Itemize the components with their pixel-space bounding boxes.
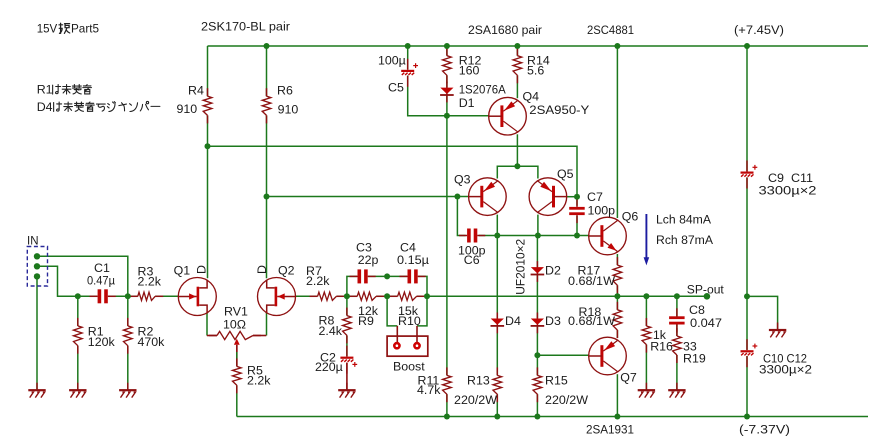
wire Q7 base net: [537, 354, 589, 356]
node bottom rail R15: [534, 414, 540, 420]
wire IN pin2 jog: [37, 266, 78, 296]
wire Q2 source: [266, 313, 268, 336]
wire R19 to ground: [676, 355, 678, 389]
svg-text:2SA950-Y: 2SA950-Y: [529, 103, 589, 117]
label R12 value: [459, 63, 480, 77]
svg-text:R16: R16: [650, 340, 673, 354]
resistor R18: [613, 302, 622, 338]
label -7.37V: [739, 423, 790, 437]
ground R19: [668, 383, 685, 398]
transistor Q6: [589, 217, 627, 255]
svg-text:910: 910: [278, 103, 299, 117]
node top rail C5: [405, 43, 411, 49]
current direction arrow: [644, 214, 650, 265]
wire R16 top lead: [645, 296, 647, 326]
wire boost left lead: [396, 326, 398, 343]
wire input node: [78, 295, 97, 297]
label C7 value: [588, 204, 616, 218]
svg-text:C7: C7: [587, 190, 603, 204]
wire C3 left leg: [347, 276, 357, 296]
svg-text:C6: C6: [464, 253, 480, 267]
node Q3 base: [454, 194, 460, 200]
label R8 value: [319, 324, 343, 338]
wire Q6 base net: [497, 235, 589, 237]
label D1: [459, 96, 475, 110]
wire R7 to R9 junction: [336, 295, 357, 297]
node top rail Q6: [614, 43, 620, 49]
label C8: [689, 303, 705, 317]
IN pin 2: [34, 263, 40, 269]
resistor R9: [349, 292, 384, 300]
svg-text:D4: D4: [505, 314, 521, 328]
wire C7 top lead: [576, 197, 578, 206]
svg-text:3300µ×2: 3300µ×2: [759, 362, 812, 376]
resistor R7: [310, 292, 345, 300]
node R16 top: [643, 293, 649, 299]
label R15: [545, 374, 568, 388]
node D1 C5: [444, 113, 450, 119]
label C4: [400, 240, 416, 254]
label C7: [587, 190, 603, 204]
wire D2 to D3: [536, 275, 538, 318]
label R11: [418, 374, 440, 388]
label R4 value: [177, 102, 198, 116]
wire C5 bottom lead: [408, 76, 447, 116]
diode D1: [440, 82, 454, 103]
wire Q1 source: [206, 313, 208, 336]
transistor Q1 jfet: [178, 278, 216, 316]
label R1 value: [88, 335, 116, 349]
node bias rail R4: [205, 143, 211, 149]
label R5: [247, 364, 263, 378]
connector Boost: [387, 336, 428, 356]
label R19: [683, 351, 706, 365]
label R13: [467, 374, 490, 388]
wire IN pin3 to ground: [36, 276, 38, 389]
svg-text:2.4k: 2.4k: [319, 324, 343, 338]
transistor Q4: [489, 97, 527, 135]
label C4 value: [397, 253, 429, 267]
label 2SC4881: [587, 23, 634, 37]
wire R14 to Q4 emitter: [516, 75, 518, 98]
svg-text:R6: R6: [277, 84, 293, 98]
wire R6 bottom to Q2 drain: [266, 115, 268, 278]
label R7: [306, 264, 322, 278]
wire RV1 wiper to R5: [236, 345, 238, 366]
wire R4 bottom to Q1 drain: [207, 115, 209, 278]
svg-text:0.68/1W: 0.68/1W: [568, 314, 615, 328]
label Boost: [393, 360, 425, 374]
node Q5 coll: [535, 233, 541, 239]
wire boost left: [387, 296, 397, 326]
label +7.45V: [734, 23, 784, 37]
svg-text:120k: 120k: [88, 335, 116, 349]
wire R18 top lead: [616, 296, 618, 310]
label R7 value: [306, 274, 330, 288]
wire output ground stub: [747, 296, 778, 329]
label 33: [683, 340, 697, 354]
ground output mid: [769, 323, 786, 338]
wire D1 node to Q4 base: [447, 115, 489, 117]
label C9 value: [759, 184, 817, 198]
node R9 C3 C4 boost: [384, 293, 390, 299]
wire R5 wiper green part: [236, 352, 238, 366]
wire Q6 collector column: [616, 46, 618, 218]
wire C6 branch: [457, 197, 465, 236]
connector IN box: [27, 247, 47, 287]
label C1 value: [87, 274, 115, 288]
resistor R5: [233, 358, 242, 393]
transistor Q3: [469, 178, 507, 216]
resistor R4: [203, 88, 212, 123]
capacitor C9: [741, 161, 758, 189]
wire D4 column top: [496, 236, 498, 319]
wire D4 to R13: [496, 327, 498, 376]
svg-text:C8: C8: [689, 303, 705, 317]
IN pin 1: [34, 253, 40, 259]
svg-text:2SK170-BL pair: 2SK170-BL pair: [201, 20, 290, 34]
svg-text:R10: R10: [398, 314, 421, 328]
svg-text:2SA1680 pair: 2SA1680 pair: [468, 23, 542, 37]
wire C10 bottom lead: [746, 356, 748, 417]
wire output node to SP-out: [617, 295, 707, 297]
wire C5 top lead: [407, 46, 409, 69]
label Q3: [454, 173, 471, 187]
label R6: [277, 84, 293, 98]
wire Q5 collector to D2: [536, 236, 538, 267]
label R18 value: [568, 314, 615, 328]
wire R2 to ground: [127, 346, 129, 389]
svg-text:Q1: Q1: [174, 264, 191, 278]
label R16: [650, 340, 673, 354]
label IN: [27, 234, 39, 248]
label R18: [579, 305, 602, 319]
svg-text:D: D: [255, 265, 269, 274]
node top rail C9: [744, 43, 750, 49]
label Q2 drain D: [255, 265, 269, 274]
svg-text:4.7k: 4.7k: [417, 383, 441, 397]
label C8 value: [690, 316, 722, 330]
wire R3 to Q1 gate: [155, 295, 178, 297]
svg-text:2SC4881: 2SC4881: [587, 23, 634, 37]
note R1は未装着: [37, 83, 92, 97]
resistor R15: [533, 367, 542, 402]
wire R6 top lead: [266, 46, 268, 96]
node bottom rail R11: [444, 414, 450, 420]
label Rch: [656, 233, 714, 247]
label D3: [545, 314, 561, 328]
label R10 value: [398, 304, 419, 318]
label D2: [545, 263, 561, 277]
label Q4 part: [529, 103, 589, 117]
svg-text:0.15µ: 0.15µ: [397, 253, 429, 267]
wire Q6 emitter lead: [616, 254, 618, 265]
svg-text:220/2W: 220/2W: [454, 393, 497, 407]
wire C9 top lead: [746, 46, 748, 171]
svg-text:2SA1931: 2SA1931: [586, 422, 634, 436]
label C9 C11: [768, 171, 813, 185]
diode D2: [531, 261, 545, 282]
label R13 value: [454, 393, 497, 407]
wire D3 to R15: [536, 327, 538, 376]
wire R16 to ground: [645, 345, 647, 389]
ground R1: [69, 383, 86, 398]
resistor R3: [130, 292, 163, 300]
label R10: [398, 314, 421, 328]
label C3 value: [358, 253, 379, 267]
label R3 value: [138, 275, 162, 289]
svg-text:Q6: Q6: [622, 210, 639, 224]
label C6: [464, 253, 480, 267]
label 2SK170-BL pair: [201, 20, 290, 34]
label RV1: [224, 305, 248, 319]
node R10 boost: [424, 293, 430, 299]
label C10 C12: [763, 352, 807, 366]
wire R17 bottom lead: [616, 285, 618, 296]
svg-text:(-7.37V): (-7.37V): [739, 423, 790, 437]
wire C1 to R3: [108, 295, 138, 297]
node Q7 base D3: [534, 352, 540, 358]
label R11 value: [417, 383, 441, 397]
svg-text:3300µ×2: 3300µ×2: [759, 184, 817, 198]
terminal SP-out: [704, 293, 711, 300]
svg-text:Q4: Q4: [523, 90, 540, 104]
label C5 value: [378, 54, 406, 68]
label Q7: [620, 370, 637, 384]
node Q4 collector: [514, 163, 520, 169]
label R15 value: [545, 393, 588, 407]
label R12: [459, 54, 482, 68]
IN pin 3: [34, 273, 40, 279]
label D1 part: [459, 83, 507, 97]
svg-text:160: 160: [459, 63, 480, 77]
wire R8 top lead: [346, 296, 348, 315]
capacitor C3: [350, 269, 376, 283]
svg-text:100µ: 100µ: [378, 54, 406, 68]
diode D4: [491, 313, 505, 334]
resistor R6: [262, 88, 271, 123]
svg-text:D: D: [194, 265, 208, 274]
svg-text:R15: R15: [545, 374, 568, 388]
label C6 value: [458, 243, 486, 257]
node Q5 base C7: [574, 194, 580, 200]
label R17 value: [568, 274, 615, 288]
svg-text:D1: D1: [459, 96, 475, 110]
wire boost right lead: [416, 326, 418, 343]
resistor R16: [642, 318, 651, 353]
label C3: [356, 240, 372, 254]
svg-text:D2: D2: [545, 263, 561, 277]
wire Q7 collector: [616, 374, 618, 416]
label Q2: [278, 264, 295, 278]
node C7 Q6 base: [574, 233, 580, 239]
svg-text:R4: R4: [188, 84, 204, 98]
wire R4 top lead: [207, 46, 209, 96]
wire C8 to R19: [676, 324, 678, 336]
svg-text:Q7: Q7: [620, 370, 637, 384]
label 1k: [653, 328, 667, 342]
wire feedback line to output node: [417, 295, 618, 297]
svg-text:220µ: 220µ: [315, 360, 343, 374]
svg-text:R1: R1: [37, 83, 53, 97]
label C2 value: [315, 360, 343, 374]
resistor R14: [513, 48, 522, 84]
wire R11 bottom lead: [446, 394, 448, 416]
node output C9 C10: [744, 293, 750, 299]
node top rail R14: [514, 43, 520, 49]
wire R15 bottom lead: [536, 394, 538, 416]
capacitor C4: [400, 269, 426, 283]
capacitor C10: [741, 339, 758, 367]
wire boost right: [417, 296, 427, 326]
node bottom rail Q7: [614, 414, 620, 420]
svg-text:SP-out: SP-out: [687, 282, 725, 296]
svg-text:10Ω: 10Ω: [223, 317, 246, 331]
wire Q4 collector: [516, 134, 518, 166]
svg-text:(+7.45V): (+7.45V): [734, 23, 784, 37]
wire C7 bottom lead: [576, 216, 578, 236]
resistor R8: [343, 308, 352, 344]
label R14 value: [527, 63, 544, 77]
label UF2010x2: [514, 239, 528, 295]
label R5 value: [247, 374, 271, 388]
resistor R11: [443, 367, 452, 402]
label R3: [138, 265, 154, 279]
wire -7.37V bottom rail: [237, 416, 868, 418]
label R14: [527, 54, 550, 68]
label SP-out: [687, 282, 725, 296]
label Q1: [174, 264, 191, 278]
svg-text:470k: 470k: [138, 335, 166, 349]
capacitor C1: [90, 289, 116, 303]
wire C9 to output node: [746, 177, 748, 296]
wire R14 top lead: [516, 46, 518, 56]
resistor R13: [493, 367, 502, 402]
svg-text:R9: R9: [358, 314, 374, 328]
diode D3: [531, 313, 545, 334]
wire Q3 collector: [496, 215, 498, 236]
wire Q5 base stub: [567, 196, 578, 198]
wire D1 long column to R11: [446, 96, 448, 376]
wire R5 bottom lead: [236, 385, 238, 416]
wire Q5 collector: [537, 215, 539, 236]
wire R13 bottom lead: [496, 394, 498, 416]
label R2 value: [138, 335, 166, 349]
svg-text:C5: C5: [388, 81, 404, 95]
svg-text:100p: 100p: [588, 204, 616, 218]
svg-text:D3: D3: [545, 314, 561, 328]
label R9 value: [358, 304, 379, 318]
capacitor C8: [669, 308, 685, 332]
svg-text:220/2W: 220/2W: [545, 393, 588, 407]
label R17: [578, 263, 601, 277]
potentiometer RV1: [207, 331, 266, 352]
svg-text:15V: 15V: [37, 21, 58, 35]
svg-text:Part5: Part5: [71, 21, 99, 35]
resistor R17: [613, 257, 622, 293]
resistor R2: [124, 318, 133, 354]
label 2SA1680 pair: [468, 23, 542, 37]
svg-text:Q2: Q2: [278, 264, 295, 278]
svg-text:2.2k: 2.2k: [247, 374, 271, 388]
wire R8 to C2: [346, 335, 348, 356]
label C1: [94, 261, 110, 275]
svg-text:Rch 87mA: Rch 87mA: [656, 233, 714, 247]
svg-text:UF2010×2: UF2010×2: [514, 239, 528, 295]
node C1 R3 R2: [125, 293, 131, 299]
capacitor C2: [340, 346, 357, 374]
label D4: [505, 314, 521, 328]
wire C2 to ground: [346, 363, 348, 389]
wire C8 top lead: [676, 296, 678, 316]
resistor R19: [673, 328, 682, 363]
ground IN: [28, 383, 45, 398]
note 15V版Part5: [37, 21, 99, 35]
capacitor C6: [459, 229, 485, 243]
capacitor C7: [569, 199, 585, 223]
svg-text:0.47µ: 0.47µ: [87, 274, 115, 288]
label Q1 drain D: [194, 265, 208, 274]
wire Q3 base net: [267, 196, 469, 198]
svg-text:R13: R13: [467, 374, 490, 388]
label Q6: [622, 210, 639, 224]
wire R18 to Q7 emitter: [616, 330, 618, 338]
label R2: [138, 324, 154, 338]
node bottom rail C10: [744, 414, 750, 420]
wire C6 to junction: [479, 235, 497, 237]
node R7 R8 C3: [344, 293, 350, 299]
svg-text:1S2076A: 1S2076A: [459, 83, 507, 97]
label Q5: [557, 167, 574, 181]
label 2SA1931: [586, 422, 634, 436]
svg-text:22p: 22p: [358, 253, 379, 267]
node top rail R12: [444, 43, 450, 49]
label R8: [319, 313, 335, 327]
svg-text:Q5: Q5: [557, 167, 574, 181]
node Q3 coll C6: [494, 233, 500, 239]
wire R1 to ground: [77, 346, 79, 389]
wire IN pin1 to R2 column: [37, 256, 128, 296]
wire +7.45V top rail: [208, 45, 869, 47]
svg-text:5.6: 5.6: [527, 63, 544, 77]
wire R12 top lead: [446, 46, 448, 56]
label R9: [358, 314, 374, 328]
node bottom rail R13: [494, 414, 500, 420]
wire bias rail: [208, 146, 578, 196]
transistor Q5: [529, 178, 567, 216]
svg-text:IN: IN: [27, 234, 39, 248]
wire C4 right leg: [418, 276, 427, 296]
svg-text:Q3: Q3: [454, 173, 471, 187]
label R1: [88, 324, 104, 338]
label C10 value: [759, 362, 812, 376]
wire R2 top lead: [127, 296, 129, 326]
node C8 top: [674, 293, 680, 299]
ground R16: [638, 383, 655, 398]
label R6 value: [278, 103, 299, 117]
label C2: [320, 350, 336, 364]
note D4は未装着でジャンパー: [37, 100, 160, 114]
label R4: [188, 84, 204, 98]
label Q4: [523, 90, 540, 104]
wire Q2 gate to R7: [296, 295, 318, 297]
svg-text:Lch 84mA: Lch 84mA: [656, 213, 712, 227]
svg-text:D4: D4: [37, 100, 53, 114]
node output R17 R18: [614, 293, 620, 299]
label RV1 value: [223, 317, 246, 331]
label C5: [388, 81, 404, 95]
transistor Q2 jfet: [258, 278, 296, 316]
